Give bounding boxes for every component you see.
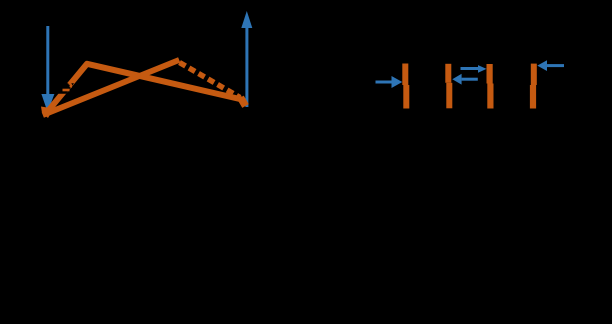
blue up arrow (right end of string) (241, 11, 252, 107)
left vertex tip (41, 107, 54, 119)
wave pulse rising edge L to P2 (solid) (46, 61, 177, 114)
blue arrow into bar 4 pointing left (537, 60, 564, 71)
bar 4 (530, 64, 537, 109)
blue arrow into bar 1 (pointing right) (376, 76, 403, 88)
blue down arrow (left end of string) (41, 26, 54, 112)
black notch over rising edge (57, 83, 74, 94)
bar 1 (longitudinal medium line) (402, 64, 409, 109)
blue arrow right of bar2 pointing left (lower) (452, 74, 478, 85)
bar 2 (445, 64, 452, 109)
wave pulse at time t: L to P1 to R (solid) (46, 64, 243, 114)
bar 3 (487, 64, 494, 109)
right vertex tail (241, 98, 246, 107)
wave pulse falling edge P2 to R (dashed) (180, 63, 241, 98)
blue arrow toward bar3 pointing right (upper) (461, 65, 487, 73)
small orange hook in notch (69, 83, 71, 88)
